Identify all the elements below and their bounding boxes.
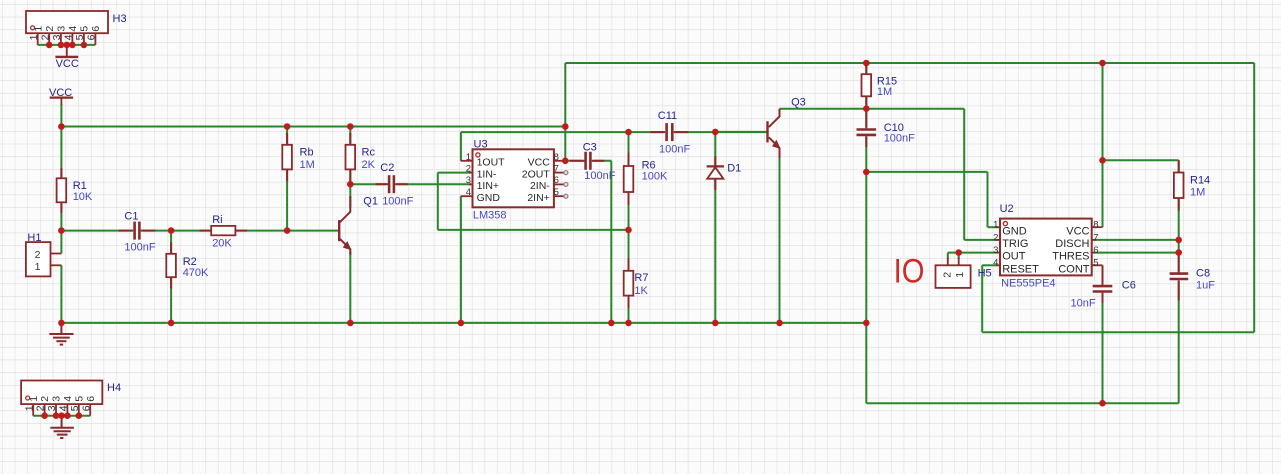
wire top VCC bus — [565, 62, 1254, 64]
svg-text:3: 3 — [993, 245, 998, 256]
svg-text:4: 4 — [466, 187, 471, 198]
wire H3 pins bus — [38, 44, 96, 46]
svg-text:100nF: 100nF — [124, 242, 155, 254]
wire H5 pin2 drop — [947, 253, 949, 259]
wire R1 column — [60, 127, 62, 231]
wire U2 pin1 vertical — [987, 172, 989, 227]
wire OUT row to H5 — [948, 252, 998, 254]
svg-text:3: 3 — [51, 396, 63, 402]
svg-text:6: 6 — [554, 175, 559, 186]
svg-text:10K: 10K — [73, 191, 93, 203]
node R14 tap — [1099, 157, 1106, 164]
svg-text:470K: 470K — [183, 267, 209, 279]
node H4 pin2 junction — [41, 412, 48, 419]
svg-text:2: 2 — [35, 405, 47, 411]
svg-text:5: 5 — [69, 405, 81, 411]
node VCC rail Rc top — [347, 123, 354, 130]
svg-text:1OUT: 1OUT — [477, 157, 506, 169]
node main line R1 bottom — [58, 227, 65, 234]
svg-text:6: 6 — [86, 34, 98, 40]
wire C8 column — [1178, 253, 1180, 404]
svg-text:Rb: Rb — [300, 147, 314, 159]
svg-text:C11: C11 — [658, 110, 677, 122]
svg-text:GND: GND — [1002, 225, 1026, 237]
wire right loop vertical — [1253, 63, 1255, 332]
svg-text:3: 3 — [46, 405, 58, 411]
wire C10 column — [865, 109, 867, 172]
wire C6 column lower — [1102, 300, 1104, 403]
svg-text:1M: 1M — [877, 86, 892, 98]
svg-text:3: 3 — [51, 34, 63, 40]
svg-text:VCC: VCC — [528, 157, 551, 169]
resistor R14 — [1174, 160, 1210, 210]
capacitor C11 — [650, 110, 690, 156]
wire H1 pin2 vertical — [60, 231, 62, 254]
svg-text:H3: H3 — [113, 13, 127, 25]
svg-text:C8: C8 — [1196, 267, 1210, 279]
svg-text:R14: R14 — [1190, 174, 1210, 186]
wire R6 R7 column — [628, 132, 630, 323]
svg-text:7: 7 — [554, 163, 559, 174]
node THRES C8 top — [1175, 249, 1182, 256]
svg-text:2: 2 — [466, 163, 471, 174]
node U3 pin8 VCC — [562, 158, 569, 165]
wire H1 pin1 vertical — [60, 265, 62, 323]
svg-text:GND: GND — [477, 192, 501, 204]
connector H4 — [21, 381, 121, 416]
node OUT H5 pin1 — [955, 249, 962, 256]
svg-text:1: 1 — [35, 261, 41, 273]
node H3 pin2 junction — [46, 42, 53, 49]
diode D1 — [707, 156, 742, 190]
wire Rb column — [286, 127, 288, 231]
U3 unconnected pin ends — [564, 171, 568, 175]
wire R2 column — [170, 231, 172, 323]
svg-text:2IN+: 2IN+ — [527, 192, 549, 204]
node H3 pin5 junction — [81, 42, 88, 49]
svg-text:5: 5 — [74, 34, 86, 40]
svg-text:100K: 100K — [642, 170, 668, 182]
svg-text:3: 3 — [56, 26, 68, 32]
svg-text:R7: R7 — [634, 272, 648, 284]
node ground bus C6 bottom — [1099, 400, 1106, 407]
svg-text:TRIG: TRIG — [1002, 238, 1028, 250]
node top bus U2 VCC tap — [1099, 60, 1106, 67]
svg-text:8: 8 — [554, 152, 559, 163]
wire DISCH THRES link — [1178, 240, 1180, 253]
svg-text:1IN+: 1IN+ — [477, 180, 499, 192]
transistor Q3 — [766, 97, 805, 158]
svg-text:10nF: 10nF — [1071, 298, 1096, 310]
wire U2 pin8 VCC vertical — [1102, 63, 1104, 227]
svg-text:U3: U3 — [474, 138, 488, 150]
node R15 bottom C10 top — [863, 105, 870, 112]
resistor R15 — [862, 63, 898, 109]
svg-text:4: 4 — [58, 405, 70, 411]
node VCC rail corner x565 — [562, 123, 569, 130]
svg-text:D1: D1 — [727, 162, 741, 174]
wire VCC flag stem lower — [60, 104, 62, 127]
node H4 ground stem junction — [58, 412, 65, 419]
svg-text:20K: 20K — [212, 238, 232, 250]
node R6 top bus B — [625, 129, 632, 136]
svg-text:5: 5 — [1093, 258, 1098, 269]
node ground bus U3 GND — [458, 320, 465, 327]
svg-text:6: 6 — [1093, 245, 1098, 256]
svg-text:2: 2 — [39, 34, 51, 40]
wire TRIG vertical — [963, 109, 965, 240]
svg-text:1: 1 — [28, 34, 40, 40]
svg-text:2: 2 — [941, 272, 953, 278]
wire main signal line — [61, 230, 338, 232]
wire TRIG to pin2 — [964, 239, 997, 241]
wire RESET vertical — [981, 265, 983, 332]
timer U2 NE555PE4 — [993, 203, 1102, 290]
node ground bus H1 — [58, 320, 65, 327]
node ground bus D1 — [712, 320, 719, 327]
svg-text:4: 4 — [63, 34, 75, 40]
svg-text:8: 8 — [1093, 220, 1098, 231]
svg-text:C1: C1 — [124, 210, 138, 222]
svg-text:1IN-: 1IN- — [477, 168, 497, 180]
svg-text:1M: 1M — [1190, 186, 1205, 198]
wire R14 tap row — [1103, 159, 1179, 161]
wire U2 pin1 jog — [988, 226, 998, 228]
svg-text:2K: 2K — [362, 159, 376, 171]
node Q1 collector C2 tap — [347, 181, 354, 188]
wire U3 pin1 vertical — [460, 132, 462, 161]
wire C3 right vertical — [610, 161, 612, 323]
svg-text:CONT: CONT — [1058, 263, 1089, 275]
node H4 pin5 junction — [76, 412, 83, 419]
svg-text:THRES: THRES — [1052, 251, 1089, 263]
ground under H1 — [49, 323, 73, 345]
connector H3 — [26, 11, 127, 45]
node R6 R7 feedback junction — [625, 227, 632, 234]
wire H5 pin1 drop — [958, 253, 960, 259]
wire feedback row to R6 bottom — [438, 229, 629, 231]
svg-text:4: 4 — [67, 26, 79, 32]
wire U3 pin2 horizontal — [438, 172, 471, 174]
capacitor C3 — [570, 141, 616, 182]
wire RESET loop horizontal — [982, 331, 1254, 333]
svg-text:100nF: 100nF — [382, 196, 413, 208]
wire Q3 base row — [715, 131, 766, 133]
ground under H4 — [50, 416, 74, 438]
capacitor C6 — [1071, 265, 1136, 309]
svg-text:2: 2 — [39, 396, 51, 402]
svg-text:H1: H1 — [27, 232, 41, 244]
svg-text:C6: C6 — [1122, 279, 1136, 291]
wire 1OUT bus B row — [461, 131, 767, 133]
node top bus R15 — [863, 60, 870, 67]
resistor R1 — [57, 168, 93, 213]
op-amp U3 LM358 — [461, 138, 568, 221]
resistor Rc — [346, 133, 376, 181]
svg-text:C2: C2 — [380, 162, 394, 174]
wire ground bus y403 — [866, 402, 1178, 404]
svg-text:Ri: Ri — [212, 214, 222, 226]
wire DISCH row — [1095, 239, 1179, 241]
wire Q3 emitter column — [779, 150, 781, 323]
svg-text:NE555PE4: NE555PE4 — [1001, 277, 1055, 289]
svg-text:3: 3 — [466, 175, 471, 186]
svg-text:2IN-: 2IN- — [530, 180, 550, 192]
node ground bus R2 — [168, 320, 175, 327]
node DISCH R14 bottom — [1175, 237, 1182, 244]
node main line R2 top — [168, 227, 175, 234]
wire Q3 collector row — [780, 108, 965, 110]
node D1 top — [712, 129, 719, 136]
svg-text:4: 4 — [62, 396, 74, 402]
wire RESET to pin4 — [982, 264, 997, 266]
node VCC rail R1 top — [58, 123, 65, 130]
wire ground column x866 — [865, 172, 867, 403]
svg-text:6: 6 — [85, 396, 97, 402]
svg-text:7: 7 — [1093, 232, 1098, 243]
svg-text:Q3: Q3 — [791, 97, 806, 109]
svg-text:C3: C3 — [583, 141, 597, 153]
U3 pin numbers — [466, 152, 471, 198]
svg-text:4: 4 — [993, 258, 998, 269]
wire U3 pin2 vertical — [437, 173, 439, 230]
wire D1 column — [714, 132, 716, 323]
svg-text:1uF: 1uF — [1196, 279, 1215, 291]
resistor R7 — [624, 259, 649, 309]
power flag VCC above R1 — [49, 87, 73, 105]
resistor R2 — [166, 243, 209, 289]
svg-text:2: 2 — [35, 249, 41, 261]
wire VCC vertical at x565 — [564, 63, 566, 161]
U3 pin names — [477, 157, 506, 204]
svg-text:VCC: VCC — [56, 58, 79, 70]
wire R15 column — [865, 63, 867, 109]
svg-text:U2: U2 — [1000, 203, 1014, 215]
transistor Q1 — [338, 195, 378, 255]
svg-text:2: 2 — [44, 26, 56, 32]
svg-text:1: 1 — [23, 405, 35, 411]
svg-text:OUT: OUT — [1002, 251, 1025, 263]
svg-text:VCC: VCC — [1066, 225, 1089, 237]
node VCC rail Rb top — [284, 123, 291, 130]
wire R14 to DISCH column — [1178, 160, 1180, 240]
node H4 pin4 junction — [64, 412, 71, 419]
node ground bus Q3 emitter — [776, 320, 783, 327]
svg-text:5: 5 — [73, 396, 85, 402]
wire U3 pin4 GND vertical — [460, 196, 462, 323]
wire U3 pin8 to C3 — [565, 160, 611, 162]
wire C10 bottom row — [866, 171, 987, 173]
wire C2 row to U3 pin3 — [350, 183, 471, 185]
svg-text:LM358: LM358 — [473, 209, 507, 221]
node H3 VCC stem junction — [64, 42, 71, 49]
node ground bus R7 — [625, 320, 632, 327]
node ground bus Q1 emitter — [347, 320, 354, 327]
node H3 pin3 junction — [58, 42, 65, 49]
svg-text:2OUT: 2OUT — [522, 168, 551, 180]
svg-text:1: 1 — [993, 220, 998, 231]
svg-text:2: 2 — [993, 232, 998, 243]
svg-text:Q1: Q1 — [363, 195, 378, 207]
node H4 pin3 junction — [53, 412, 60, 419]
wire Rc / Q1 collector column — [349, 127, 351, 209]
svg-text:1K: 1K — [634, 285, 648, 297]
svg-text:H4: H4 — [107, 382, 121, 394]
svg-text:6: 6 — [80, 405, 92, 411]
wire bottom ground bus — [61, 322, 866, 324]
svg-text:DISCH: DISCH — [1055, 238, 1089, 250]
node main line Rb bottom — [284, 227, 291, 234]
svg-text:5: 5 — [554, 187, 559, 198]
capacitor C10 — [856, 109, 915, 147]
node ground bus C3 — [608, 320, 615, 327]
resistor R6 — [624, 153, 668, 206]
svg-text:100nF: 100nF — [659, 144, 690, 156]
node ground bus corner x866 — [863, 320, 870, 327]
power flag VCC under H3 — [55, 45, 78, 70]
node C10 bottom — [863, 169, 870, 176]
svg-text:H5: H5 — [978, 267, 992, 279]
svg-text:6: 6 — [90, 26, 102, 32]
connector H1 — [26, 232, 62, 277]
svg-text:1: 1 — [466, 152, 471, 163]
svg-text:1: 1 — [32, 26, 44, 32]
resistor Ri — [200, 214, 248, 250]
wire Q1 emitter column — [349, 252, 351, 323]
wire VCC rail bus A — [61, 126, 565, 128]
svg-text:5: 5 — [79, 26, 91, 32]
capacitor C1 — [119, 210, 156, 253]
resistor Rb — [282, 133, 314, 181]
svg-text:1M: 1M — [300, 159, 315, 171]
capacitor C2 — [376, 162, 414, 208]
svg-text:1: 1 — [28, 396, 40, 402]
svg-text:Rc: Rc — [362, 147, 376, 159]
svg-text:100nF: 100nF — [884, 132, 915, 144]
connector H5 — [936, 258, 992, 288]
svg-text:100nF: 100nF — [584, 170, 615, 182]
svg-text:1: 1 — [954, 272, 966, 278]
wire THRES row — [1095, 252, 1179, 254]
node H3 pin4 junction — [69, 42, 76, 49]
capacitor C8 — [1168, 253, 1215, 301]
svg-text:IO: IO — [894, 252, 925, 290]
svg-text:RESET: RESET — [1002, 263, 1039, 275]
wire H4 pins bus — [33, 415, 90, 417]
